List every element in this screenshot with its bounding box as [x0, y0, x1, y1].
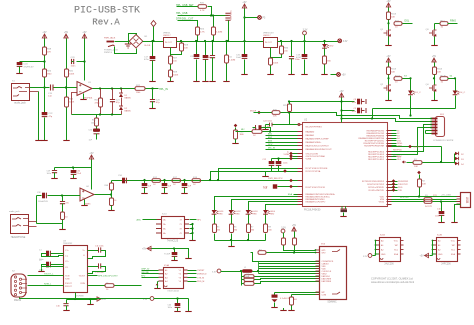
wire MCLR from PIC — [391, 146, 442, 148]
resistor series Q4 — [440, 77, 448, 81]
wire D4_C bus horizontal — [373, 108, 456, 110]
svg-text:IC10: IC10 — [162, 214, 167, 216]
wire C30 gnd — [73, 175, 75, 177]
svg-text:RA4/T0CKI/C1OUT/RCV: RA4/T0CKI/C1OUT/RCV — [306, 144, 330, 147]
wire node down Q2 — [388, 79, 390, 85]
wire right stub RXD — [392, 187, 398, 189]
svg-text:RXD: RXD — [398, 187, 403, 189]
wire R41 to R44 — [66, 78, 68, 98]
wire VBUS to USB — [392, 196, 457, 198]
wire LED D4_C stub — [455, 79, 457, 91]
wire IC11 A4 down — [157, 282, 159, 287]
svg-text:LM1117: LM1117 — [263, 35, 271, 37]
junction signal tap — [43, 86, 45, 88]
svg-text:10uF: 10uF — [236, 57, 242, 59]
svg-text:+5V: +5V — [386, 56, 391, 58]
capacitor C33 — [289, 57, 301, 62]
svg-text:R4 27R: R4 27R — [425, 206, 432, 208]
resistor L2 — [105, 284, 114, 288]
wire C37 stub — [184, 181, 186, 184]
junction MCLR R25 — [288, 111, 290, 113]
svg-text:VSS2: VSS2 — [379, 201, 385, 203]
wire +5V to pullup Q4 — [434, 63, 436, 68]
svg-text:100K: 100K — [91, 123, 96, 125]
junction HPL_USB R31 — [210, 14, 212, 16]
junction loop C21 — [111, 113, 113, 115]
wire LED3 net — [249, 202, 298, 211]
wire R44 to ground — [66, 108, 68, 139]
wire vusb gnd stem — [265, 172, 267, 175]
wire RB0 stub — [294, 194, 298, 196]
svg-text:47uF: 47uF — [296, 57, 302, 59]
svg-text:100n: 100n — [352, 102, 356, 104]
svg-text:D4_C: D4_C — [460, 92, 466, 94]
svg-text:74LVC2244: 74LVC2244 — [167, 291, 179, 293]
capacitor C36 — [162, 183, 168, 187]
capacitor C1 — [46, 251, 50, 257]
LED LED2 — [229, 210, 236, 214]
ground IC11 row — [188, 309, 190, 311]
transistor Q1 — [380, 29, 391, 37]
wire LED stub — [324, 42, 326, 45]
wire C2 left — [253, 127, 256, 129]
wire pullup 1 right — [255, 276, 259, 278]
svg-text:RS232: RS232 — [14, 300, 22, 302]
diode D1 — [119, 93, 123, 97]
svg-text:RB3/AN9/CCP2/VPO: RB3/AN9/CCP2/VPO — [306, 200, 326, 203]
ground IC11 A4 — [157, 286, 159, 288]
wire R19 to node — [44, 56, 46, 70]
svg-text:D-: D- — [287, 152, 289, 154]
svg-text:VCP/NB: VCP/NB — [76, 296, 84, 298]
svg-text:MIC_IN: MIC_IN — [268, 147, 276, 149]
junction output diode — [120, 87, 122, 89]
wire to +5V testpoint — [331, 74, 337, 76]
wire C22 to ground — [44, 118, 46, 139]
ground R34 — [226, 79, 228, 81]
svg-text:+5V: +5V — [89, 153, 94, 155]
junction rail C26 — [195, 40, 197, 42]
svg-text:27R: 27R — [433, 195, 437, 197]
svg-text:10K: 10K — [391, 71, 395, 73]
wire MCLR down to pin — [290, 113, 298, 125]
wire SD bus y261 — [259, 261, 320, 263]
junction led rail a — [230, 239, 232, 241]
ground C35 — [144, 191, 146, 193]
svg-text:+5V: +5V — [142, 249, 147, 251]
junction rail C27 — [204, 40, 206, 42]
wire 3.3V circle stem — [304, 35, 306, 42]
resistor R1 — [387, 12, 397, 20]
wire R34 stub — [226, 42, 228, 56]
diode D3 mclr — [455, 157, 459, 161]
diode D4 mclr — [455, 162, 459, 166]
svg-text:TC10F: TC10F — [164, 254, 171, 256]
ground Q4 — [434, 98, 436, 100]
ground C29 — [54, 176, 56, 178]
resistor R36 — [290, 297, 294, 305]
resistor R33 — [212, 27, 223, 35]
wire +5V LM386 stem — [91, 160, 93, 190]
resistor R8 (led) — [264, 224, 268, 233]
wire SD bus y268.5 — [259, 268, 320, 270]
wire pullup 2 left — [242, 279, 245, 281]
wire LED4 to resistor — [265, 215, 267, 225]
wire R4 to USB — [433, 201, 457, 203]
wire SD COM — [292, 294, 320, 296]
wire R25 to +5V row — [289, 102, 291, 105]
diode D2 mclr — [455, 152, 459, 156]
svg-text:100n: 100n — [283, 163, 287, 165]
wire LED4 net — [266, 205, 298, 211]
wire between diodes — [121, 98, 123, 107]
wire IC11 out RXD_M — [188, 281, 197, 283]
wire SD bus y263.5 — [259, 263, 320, 265]
wire LM386 gnd stem — [84, 200, 86, 204]
junction rail LED — [323, 40, 325, 42]
ground LM386 — [84, 203, 86, 205]
junction rail R34 — [225, 40, 227, 42]
supply +5V (regulator rail) — [242, 2, 247, 8]
wire diode lefts — [454, 154, 456, 164]
ground bias divider — [66, 138, 68, 140]
ground SD extra — [283, 308, 285, 310]
svg-text:4.7uF/6.3V: 4.7uF/6.3V — [280, 298, 290, 300]
svg-text:3.3V: 3.3V — [363, 256, 368, 258]
ground C42 — [212, 79, 214, 81]
svg-text:C3/RST: C3/RST — [197, 270, 205, 272]
connector SV3 SD/MMC body — [315, 244, 347, 304]
ic U2 left pins — [298, 132, 303, 205]
junction HPL_USB R33 — [212, 14, 214, 16]
svg-text:3.3V: 3.3V — [281, 227, 286, 229]
supply +5V (IC2B) — [420, 253, 429, 257]
wire op-amp ground stem — [83, 94, 85, 98]
junction U3 vcc — [74, 298, 76, 300]
junction IC11 cap — [176, 297, 178, 299]
wire arrow to R1 — [407, 162, 414, 164]
wire RXIN_L — [28, 285, 64, 287]
ground LED rail — [231, 244, 233, 246]
wire LED gnd rail — [215, 240, 266, 242]
svg-text:100K: 100K — [69, 73, 75, 75]
wire C25 stub — [152, 89, 154, 100]
svg-text:LED: LED — [329, 45, 334, 47]
ground C36 — [164, 191, 166, 193]
svg-text:+5V_USB: +5V_USB — [441, 194, 451, 196]
wire C23 right — [77, 61, 85, 63]
wire right stub RD2 — [392, 156, 397, 158]
wire +5V to R1 — [388, 8, 390, 13]
wire +5V rail — [177, 41, 264, 43]
svg-text:PIC-USB-STK: PIC-USB-STK — [74, 6, 140, 17]
wire C36 stub — [164, 181, 166, 184]
wire 3.3V to L1 — [221, 271, 242, 273]
wire pullup 2 to pin — [259, 279, 320, 280]
wire Q3 node left — [435, 23, 440, 25]
wire LED D1_C stub — [410, 79, 412, 91]
wire C17 stub — [152, 42, 154, 57]
wire C12 bottom — [271, 166, 273, 172]
junction bus A vdd — [340, 114, 342, 116]
wire R46 column stub — [96, 115, 98, 119]
resistor R27 — [169, 56, 178, 64]
wire R36 stub — [291, 295, 293, 298]
svg-text:T2IN: T2IN — [65, 278, 70, 280]
testpoint 3.3V rail — [338, 39, 348, 43]
wire C1 to U3 — [51, 253, 64, 255]
wire to testpoint P5 — [245, 17, 258, 19]
svg-text:DSL: DSL — [405, 19, 410, 22]
wire V- to C13 — [88, 266, 99, 268]
wire source Q2 — [388, 92, 390, 99]
svg-text:R1-B: R1-B — [391, 69, 397, 71]
wire C27 stub — [205, 42, 207, 56]
wire IC10 bus pin4 — [190, 233, 193, 235]
wire L2 right — [115, 285, 142, 287]
capacitor C23 — [71, 57, 77, 68]
ground IC10 row — [188, 256, 190, 258]
wire MCLR long to ICSP — [290, 113, 342, 116]
wire pullup col — [241, 272, 243, 286]
svg-text:100n: 100n — [71, 66, 77, 68]
wire C22 left — [266, 124, 270, 126]
wire C16 stub — [66, 300, 68, 304]
wire earth stem — [128, 42, 130, 44]
svg-text:+5V: +5V — [42, 32, 47, 34]
connector SV1 ICSP — [430, 114, 454, 142]
svg-text:PWR/2.0: PWR/2.0 — [104, 52, 113, 54]
wire IC10 row end — [186, 249, 189, 257]
wire C11 return — [88, 251, 106, 259]
wire node down Q4 — [434, 79, 436, 85]
junction rail C19 — [303, 40, 305, 42]
wire R46 to C20 — [96, 127, 98, 129]
wire SD bus y273.5 — [259, 273, 320, 275]
wire R26 to R25 node — [281, 112, 290, 114]
crystal Q6 (bottom) — [341, 206, 348, 212]
supply +5V (Q1 cell) — [386, 1, 391, 7]
capacitor C30 — [71, 170, 77, 174]
LED LED1 — [212, 210, 219, 214]
wire R30 to adj — [271, 55, 282, 58]
wire C21 bottom stub — [112, 102, 114, 115]
node hdr diamond — [289, 185, 293, 189]
svg-text:RXIN_L: RXIN_L — [44, 283, 52, 285]
svg-text:3.3V: 3.3V — [143, 299, 148, 301]
resistor R1 — [413, 159, 422, 168]
wire LED2 to resistor — [231, 215, 233, 225]
node PWM diamond — [283, 169, 287, 173]
resistor R32 — [269, 58, 279, 65]
ground C33 — [291, 72, 293, 74]
supply 3.3V circle — [303, 29, 308, 35]
supply +5V (mic bias col 1) — [42, 32, 47, 38]
supply 3.3V (GP0 pullup) — [281, 227, 286, 233]
node diamond RXD2/RX2 — [392, 179, 396, 183]
capacitor C12 (VUSB) — [262, 159, 274, 166]
junction ladder mid — [217, 179, 219, 181]
wire op-amp output — [93, 88, 136, 90]
wire C10 stub — [441, 202, 443, 212]
junction ladder C35 — [143, 179, 145, 181]
ground crystal 2 — [343, 214, 345, 216]
capacitor C2 — [46, 262, 50, 268]
resistor R28 — [180, 43, 189, 51]
wire C21 top stub — [112, 89, 114, 100]
wire C35 stub — [144, 181, 146, 184]
supply +5V (LM386) — [89, 153, 94, 159]
capacitor C9 — [357, 108, 361, 114]
wire cap row 2 — [342, 110, 355, 112]
resistor R37 (GP0) — [282, 238, 286, 245]
wire C19 to ground — [304, 60, 306, 73]
junction VBUS — [418, 195, 420, 197]
supply +5V (U3) — [97, 297, 107, 301]
wire C36 gnd — [164, 188, 166, 192]
ground C26 — [196, 79, 198, 81]
wire pullup 2 right — [255, 279, 259, 281]
wire MCLR left — [254, 112, 273, 114]
wire MIC diamond stem — [235, 128, 237, 130]
svg-text:C22 100n: C22 100n — [263, 121, 273, 123]
wire R31 to HPL_USB — [208, 7, 212, 16]
node RC4 diamond — [289, 152, 293, 156]
wire stub RCV — [266, 145, 298, 147]
wire GP0 net — [284, 246, 316, 251]
junction LED D1_C — [409, 77, 411, 79]
svg-text:RD1/SPP1/LED1: RD1/SPP1/LED1 — [368, 159, 385, 161]
ground C41 — [274, 305, 276, 307]
svg-text:R1IN: R1IN — [80, 283, 85, 285]
capacitor C31 — [236, 54, 247, 59]
resistor R48 — [110, 183, 114, 190]
ic U2 left pin names — [306, 130, 336, 203]
wire LED4 to rail — [265, 234, 267, 241]
supply 3.3V (IC11) — [150, 297, 154, 301]
wire IC2B gnd link — [433, 253, 437, 255]
svg-text:10K: 10K — [437, 71, 441, 73]
net arrow reset in — [402, 161, 406, 163]
wire D- to R3 — [392, 199, 425, 201]
wire SD WP — [275, 292, 320, 294]
svg-text:100n: 100n — [352, 111, 356, 113]
wire V+ to C11 — [88, 250, 99, 252]
wire R47 top stub — [100, 89, 102, 98]
wire LED1 net — [215, 197, 298, 211]
svg-text:T1OUT: T1OUT — [78, 276, 85, 278]
svg-text:T1IN: T1IN — [65, 276, 70, 278]
wire xtal2 gnd stem — [343, 213, 345, 215]
svg-text:RA5/AN4/SS/LVDIN/C2OUT: RA5/AN4/SS/LVDIN/C2OUT — [306, 148, 333, 151]
ground C17 — [152, 79, 154, 81]
wire IC2B supply — [430, 255, 433, 257]
svg-text:SPR_DSL/CPU_EXT: SPR_DSL/CPU_EXT — [98, 276, 118, 278]
supply +5V (Q2 cell) — [386, 56, 391, 62]
supply +5V (GP1 pullup) — [292, 225, 297, 231]
wire zobel mid — [62, 204, 64, 212]
svg-text:4.7K: 4.7K — [200, 31, 205, 33]
wire T1OUT right — [88, 275, 98, 277]
wire pullup 1 left — [242, 276, 245, 278]
svg-text:3.3V: 3.3V — [343, 41, 348, 43]
connector X2 RS232 DB9 — [11, 271, 27, 303]
ground R42 — [111, 208, 113, 210]
junction IC10 cap — [173, 247, 175, 249]
ground audio rail — [62, 227, 64, 229]
svg-text:R2-B: R2-B — [395, 76, 401, 78]
svg-text:R2-B: R2-B — [441, 76, 447, 78]
capacitor C22 (mclr filter) — [263, 121, 273, 127]
svg-text:GND: GND — [381, 254, 386, 256]
wire U6 adj pin — [270, 48, 272, 59]
wire Q3 source — [434, 37, 436, 44]
wire C37 gnd — [184, 188, 186, 192]
node diamond TXD — [392, 188, 396, 192]
svg-text:TXD2/TX2: TXD2/TX2 — [398, 184, 409, 186]
ground R23 — [235, 141, 237, 143]
svg-text:IN OUT: IN OUT — [165, 42, 173, 44]
svg-text:IC4A: IC4A — [164, 264, 169, 267]
svg-text:DAT2/RES: DAT2/RES — [322, 280, 332, 283]
wire feedback left leg — [72, 93, 78, 115]
svg-text:SPD: SPD — [141, 276, 146, 278]
capacitor C24 — [17, 62, 23, 66]
capacitor C9 second plate — [361, 108, 366, 113]
ground C10 — [441, 220, 443, 222]
svg-text:CTS_M: CTS_M — [197, 277, 204, 279]
wire R2 to VBUS — [419, 188, 421, 197]
wire R27 to R29 — [170, 65, 172, 71]
wire ICSP pin56 join — [425, 131, 427, 134]
svg-text:VREG3.3V: VREG3.3V — [263, 32, 274, 34]
ground C40 — [177, 309, 179, 311]
transistor Q2 — [380, 84, 391, 92]
svg-text:10K: 10K — [184, 47, 188, 49]
svg-text:R1-B: R1-B — [437, 69, 443, 71]
junction C18 top — [277, 157, 279, 159]
supply 3.3V (SD) — [217, 269, 221, 273]
svg-text:470u: 470u — [144, 59, 150, 61]
wire jack lower red — [30, 91, 39, 93]
svg-text:47K: 47K — [47, 51, 51, 53]
svg-text:100n: 100n — [435, 216, 439, 218]
junction rail R28A — [180, 40, 182, 42]
transistor Q3 — [426, 29, 437, 37]
testpoint +5V — [337, 73, 347, 77]
node diamond RXD — [392, 185, 396, 189]
LED LED4 — [263, 210, 270, 214]
svg-text:GND: GND — [438, 254, 443, 256]
wire stub AN1 — [266, 135, 298, 137]
wire RC4 row — [293, 153, 298, 155]
wire right stub S2 — [392, 133, 397, 135]
wire DB9 gnd net — [20, 298, 151, 299]
resistor R31 — [198, 5, 207, 9]
junction cap row1 — [340, 100, 342, 102]
junction bus led — [409, 114, 411, 116]
wire R1 to node — [388, 20, 390, 24]
svg-text:47uF: 47uF — [77, 173, 82, 175]
wire C29 stub — [54, 168, 56, 171]
ground audio jack — [38, 138, 40, 140]
resistor R2 — [418, 179, 427, 187]
wire C2 return — [42, 265, 64, 267]
wire R22 to label — [146, 88, 159, 90]
wire IC10 vcc row — [152, 248, 186, 250]
ground R29 — [170, 79, 172, 81]
LED D1_C — [408, 91, 421, 95]
